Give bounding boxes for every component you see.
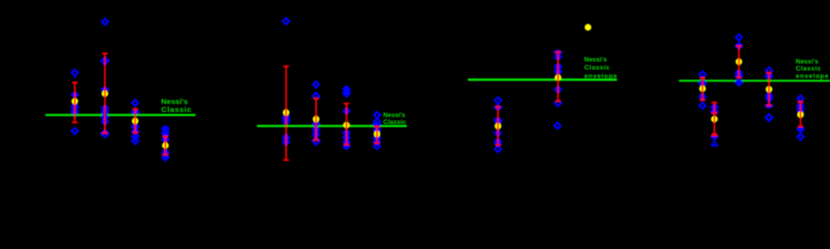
filled diamond bbox=[374, 139, 380, 145]
yellow circle bbox=[132, 118, 139, 125]
isolated yellow circle bbox=[585, 24, 592, 31]
filled diamond bbox=[132, 134, 138, 140]
yellow circle bbox=[72, 98, 79, 105]
open diamond bbox=[102, 118, 108, 124]
open diamond bbox=[313, 81, 319, 87]
blue cap bbox=[766, 73, 773, 75]
yellow circle bbox=[699, 85, 706, 92]
wide marker blob bbox=[495, 105, 502, 109]
red error bar bbox=[766, 73, 772, 106]
open diamond bbox=[374, 143, 380, 149]
yellow circle bbox=[495, 123, 502, 130]
blue cap bbox=[555, 72, 562, 74]
filled diamond bbox=[736, 70, 742, 76]
blue cap bbox=[162, 149, 169, 151]
blue cap bbox=[495, 118, 502, 120]
open diamond bbox=[374, 119, 380, 125]
blue cap bbox=[699, 84, 706, 86]
filled diamond bbox=[797, 107, 803, 113]
blue cap bbox=[711, 105, 718, 107]
green reference line bbox=[257, 125, 407, 127]
blue cap bbox=[71, 112, 78, 114]
open diamond bbox=[102, 114, 108, 120]
yellow circle bbox=[283, 109, 290, 116]
open diamond bbox=[374, 112, 380, 118]
open diamond bbox=[736, 34, 742, 40]
blue cap bbox=[495, 122, 502, 124]
open diamond bbox=[699, 103, 705, 109]
open diamond bbox=[797, 134, 803, 140]
yellow circle bbox=[374, 131, 381, 138]
yellow circle bbox=[736, 58, 743, 64]
green reference line bbox=[46, 114, 196, 116]
open diamond bbox=[101, 58, 108, 65]
filled diamond bbox=[343, 134, 349, 140]
open diamond bbox=[495, 146, 501, 152]
open diamond bbox=[102, 109, 108, 115]
yellow circle bbox=[711, 116, 718, 123]
filled diamond bbox=[736, 79, 742, 85]
blue cap bbox=[736, 70, 743, 72]
filled diamond bbox=[283, 134, 289, 140]
red error bar bbox=[555, 52, 561, 101]
open diamond bbox=[699, 94, 705, 100]
filled diamond bbox=[555, 54, 561, 60]
open diamond bbox=[313, 138, 320, 145]
open diamond bbox=[283, 18, 289, 24]
red error bar bbox=[374, 127, 380, 144]
filled diamond bbox=[283, 139, 289, 145]
filled diamond bbox=[162, 136, 168, 142]
red error bar bbox=[163, 137, 169, 155]
blue cap bbox=[283, 115, 290, 117]
red error bar bbox=[313, 99, 319, 141]
open triangle bbox=[712, 141, 718, 145]
red error bar bbox=[712, 103, 718, 135]
blue cap bbox=[495, 143, 502, 145]
filled diamond bbox=[162, 154, 168, 160]
filled diamond bbox=[313, 127, 319, 133]
red cap bbox=[711, 112, 717, 114]
filled diamond bbox=[711, 104, 717, 110]
open diamond bbox=[766, 114, 773, 121]
green reference line bbox=[679, 80, 830, 82]
filled diamond bbox=[132, 129, 138, 135]
open diamond bbox=[797, 95, 803, 101]
open diamond bbox=[72, 70, 78, 76]
wide marker blob bbox=[495, 118, 502, 122]
open diamond bbox=[313, 121, 319, 127]
blue cap bbox=[797, 111, 804, 113]
red error bar bbox=[283, 66, 289, 160]
isolated open diamond bbox=[554, 123, 560, 129]
yellow circle bbox=[555, 74, 562, 81]
wide marker blob bbox=[132, 110, 139, 114]
blue cap bbox=[495, 139, 502, 141]
open diamond bbox=[102, 19, 108, 25]
open diamond bbox=[555, 86, 561, 92]
open diamond bbox=[102, 105, 108, 111]
filled diamond bbox=[343, 86, 350, 93]
open diamond bbox=[699, 80, 705, 86]
red error bar bbox=[700, 78, 706, 100]
filled diamond bbox=[495, 139, 501, 145]
open diamond bbox=[101, 130, 108, 137]
blue cap bbox=[699, 81, 706, 83]
blue cap bbox=[555, 64, 562, 66]
blue cap bbox=[71, 104, 78, 106]
filled diamond bbox=[766, 93, 772, 99]
filled diamond bbox=[555, 64, 561, 70]
red error bar bbox=[102, 54, 108, 134]
open diamond bbox=[313, 93, 320, 100]
wide marker blob bbox=[766, 74, 773, 78]
filled diamond bbox=[283, 118, 289, 124]
filled diamond bbox=[343, 143, 349, 149]
open diamond bbox=[699, 71, 705, 77]
open diamond bbox=[766, 67, 772, 73]
open diamond bbox=[495, 130, 501, 136]
open diamond bbox=[132, 100, 138, 106]
filled diamond bbox=[162, 126, 168, 132]
blue stem bbox=[74, 76, 76, 79]
yellow circle bbox=[313, 116, 320, 123]
blue cap bbox=[162, 134, 169, 136]
red error bar bbox=[132, 109, 138, 133]
filled diamond bbox=[162, 130, 168, 136]
blue cap bbox=[283, 122, 290, 124]
open diamond bbox=[132, 138, 138, 144]
open diamond bbox=[72, 108, 78, 114]
yellow circle bbox=[766, 86, 773, 93]
blue cap bbox=[711, 145, 718, 147]
wide marker blob bbox=[374, 122, 381, 126]
yellow circle bbox=[162, 142, 169, 149]
blue cap bbox=[797, 104, 804, 106]
red error bar bbox=[736, 46, 742, 78]
filled diamond bbox=[132, 124, 138, 130]
open diamond bbox=[72, 128, 78, 134]
svg-text:Nessi'sClassic: Nessi'sClassic bbox=[383, 112, 406, 126]
open diamond bbox=[555, 100, 561, 106]
red error bar bbox=[72, 83, 78, 123]
wide marker blob bbox=[101, 87, 108, 91]
filled diamond bbox=[343, 139, 349, 145]
yellow circle bbox=[102, 90, 109, 97]
filled diamond bbox=[313, 131, 319, 137]
filled diamond bbox=[343, 130, 349, 136]
blue cap bbox=[162, 126, 169, 128]
filled diamond bbox=[555, 68, 561, 74]
filled diamond bbox=[797, 126, 803, 132]
filled diamond bbox=[283, 115, 289, 121]
filled diamond bbox=[711, 133, 717, 139]
blue cap bbox=[132, 124, 139, 126]
wide marker blob bbox=[555, 50, 562, 54]
wide marker blob bbox=[71, 93, 78, 97]
yellow circle bbox=[797, 111, 804, 118]
filled diamond bbox=[797, 103, 803, 109]
filled diamond bbox=[374, 135, 380, 141]
filled diamond bbox=[766, 95, 772, 101]
filled diamond bbox=[711, 108, 717, 114]
open diamond bbox=[343, 108, 349, 114]
wide marker blob bbox=[766, 104, 773, 108]
svg-text:Nessi'sClassic: Nessi'sClassic bbox=[161, 97, 191, 114]
filled diamond bbox=[374, 127, 380, 133]
open diamond bbox=[495, 97, 501, 103]
blue cap bbox=[766, 77, 773, 79]
green reference line bbox=[468, 79, 617, 81]
red error bar bbox=[344, 104, 350, 145]
yellow circle bbox=[343, 122, 350, 129]
wide marker blob bbox=[735, 74, 742, 78]
red cap bbox=[711, 135, 717, 137]
red error bar bbox=[495, 107, 501, 146]
filled diamond bbox=[736, 43, 742, 49]
open diamond bbox=[72, 104, 78, 110]
filled diamond bbox=[162, 150, 168, 156]
red error bar bbox=[798, 102, 804, 127]
filled diamond bbox=[343, 90, 350, 97]
